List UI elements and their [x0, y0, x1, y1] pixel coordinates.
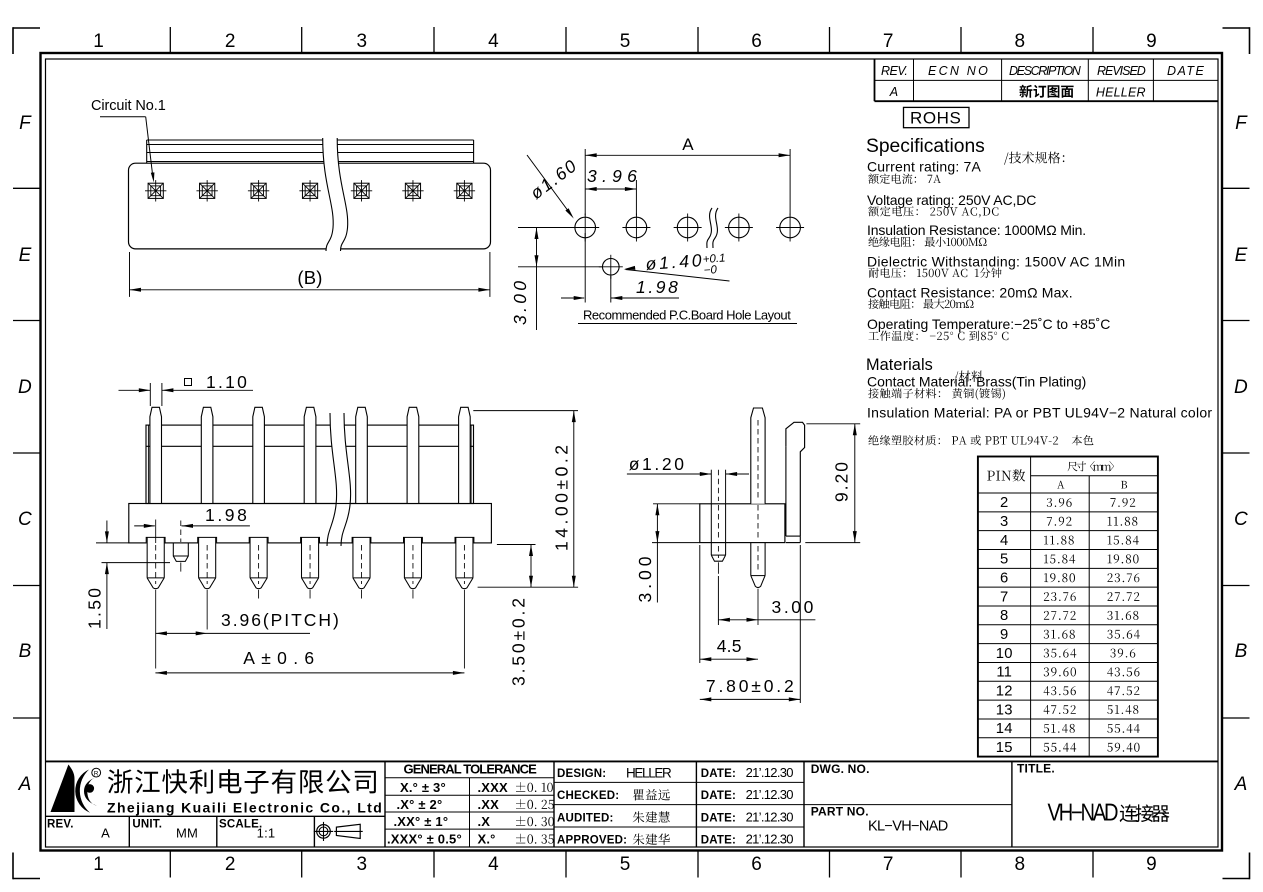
svg-text:HELLER: HELLER	[626, 766, 672, 781]
corner bracket top-right	[1223, 27, 1250, 54]
spec current rating	[867, 159, 981, 184]
svg-text:CHECKED:: CHECKED:	[557, 790, 619, 802]
right ruler ticks	[1223, 188, 1250, 718]
svg-text:R: R	[94, 771, 99, 778]
svg-text:6: 6	[1000, 571, 1008, 587]
svg-text:GENERAL TOLERANCE: GENERAL TOLERANCE	[404, 762, 538, 777]
svg-text:Voltage rating: 250V AC,DC: Voltage rating: 250V AC,DC	[867, 192, 1037, 208]
svg-text:10: 10	[996, 646, 1013, 662]
dimension 3.00 peg to pin side	[718, 576, 815, 625]
svg-text:REVISED: REVISED	[1097, 64, 1146, 78]
svg-text:8: 8	[1000, 608, 1008, 624]
svg-text:B: B	[1235, 641, 1248, 662]
svg-text:AUDITED:: AUDITED:	[557, 813, 614, 825]
svg-text:11: 11	[996, 665, 1012, 681]
bottom column numbers 1-9	[93, 854, 1157, 875]
svg-text:ECN NO: ECN NO	[928, 64, 988, 78]
top view wafer rails	[147, 140, 474, 163]
hole layout lower hole	[599, 255, 623, 279]
svg-text:3.96(PITCH): 3.96(PITCH)	[221, 610, 339, 630]
svg-text:1: 1	[93, 31, 104, 52]
svg-text:7: 7	[1000, 589, 1008, 605]
svg-text:21’.12.30: 21’.12.30	[746, 787, 794, 802]
svg-text:21’.12.30: 21’.12.30	[746, 765, 794, 780]
spec voltage rating	[867, 192, 1037, 218]
svg-text:Insulation Resistance: 1000M: Insulation Resistance: 1000MΩ Min.	[867, 222, 1086, 238]
bottom ruler ticks	[170, 851, 1093, 878]
svg-text:Dielectric Withstanding: 15: Dielectric Withstanding: 1500V AC 1Min	[867, 253, 1125, 269]
svg-text:(B): (B)	[297, 267, 322, 288]
svg-text:1: 1	[93, 854, 104, 875]
svg-text:REV.: REV.	[47, 819, 74, 831]
materials heading	[866, 356, 983, 383]
svg-text:2: 2	[225, 31, 236, 52]
dimension 3.50 pin protrusion	[497, 545, 536, 686]
dimension 3.96 pitch	[155, 610, 339, 635]
svg-text:E: E	[19, 245, 32, 266]
svg-text:9: 9	[1000, 627, 1008, 643]
svg-text:.X: .X	[478, 814, 491, 829]
dimension 3.96 hole pitch	[585, 166, 637, 216]
svg-text:UNIT.: UNIT.	[132, 819, 162, 831]
svg-text:21’.12.30: 21’.12.30	[746, 832, 794, 847]
front view hold-down peg	[173, 521, 188, 572]
svg-text:15: 15	[996, 740, 1013, 756]
right row letters F-A	[1234, 113, 1249, 795]
dimension 1.50 peg length	[88, 521, 170, 630]
dimension 9.20 blade height	[805, 424, 860, 543]
front view housing body	[146, 425, 474, 503]
svg-text:Materials: Materials	[866, 356, 933, 374]
dimension A plus-minus 0.6	[155, 648, 464, 675]
svg-text:12: 12	[996, 684, 1013, 700]
svg-text:Current rating: 7A: Current rating: 7A	[867, 159, 981, 175]
svg-text:C: C	[1234, 509, 1248, 530]
dimension 4.5 side	[700, 545, 758, 663]
corner bracket bottom-left	[13, 853, 40, 880]
company name chinese	[108, 769, 376, 794]
material insulation	[867, 404, 1212, 445]
svg-text:6: 6	[751, 854, 762, 875]
front view base band	[129, 504, 492, 543]
svg-text:7: 7	[883, 854, 894, 875]
svg-text:A±0.6: A±0.6	[243, 648, 314, 668]
top column numbers 1-9	[93, 31, 1157, 52]
svg-text:Circuit No.1: Circuit No.1	[91, 98, 166, 114]
svg-text:5: 5	[620, 31, 631, 52]
svg-text:ROHS: ROHS	[910, 109, 961, 128]
svg-text:9: 9	[1146, 31, 1157, 52]
label diameter 1.60 with leader	[527, 155, 578, 219]
svg-text:A: A	[101, 826, 110, 841]
svg-text:DATE:: DATE:	[701, 835, 736, 847]
svg-text:DWG. NO.: DWG. NO.	[811, 762, 870, 776]
svg-text:1.10: 1.10	[206, 372, 247, 392]
left row letters F-A	[18, 113, 33, 795]
svg-text:4: 4	[1000, 533, 1008, 549]
svg-text:APPROVED:: APPROVED:	[557, 835, 627, 847]
svg-text:8: 8	[1015, 31, 1026, 52]
hole layout break mark	[707, 208, 719, 248]
spec dielectric withstanding	[867, 253, 1125, 278]
svg-text:2: 2	[225, 854, 236, 875]
svg-text:C: C	[18, 509, 32, 530]
svg-text:7.80±0.2: 7.80±0.2	[706, 676, 794, 696]
svg-text:3.00: 3.00	[772, 597, 814, 617]
svg-text:Insulation Material: PA or: Insulation Material: PA or PBT UL94V−2 N…	[867, 404, 1212, 420]
svg-text:PART NO.: PART NO.	[811, 805, 869, 819]
svg-text:DATE: DATE	[1167, 64, 1204, 78]
svg-text:3.96: 3.96	[587, 166, 637, 186]
svg-text:TITLE.: TITLE.	[1017, 762, 1055, 776]
dimension A horizontal	[585, 135, 790, 216]
svg-text:6: 6	[751, 31, 762, 52]
svg-text:1.98: 1.98	[205, 505, 247, 525]
svg-text:DATE:: DATE:	[701, 768, 736, 780]
svg-text:B: B	[19, 641, 32, 662]
corner bracket top-left	[13, 27, 40, 54]
spec contact resistance	[867, 285, 1073, 309]
ROHS label	[904, 107, 970, 127]
dimension 14.00 overall height	[473, 411, 578, 588]
dimension 3.00 base height side	[639, 504, 700, 603]
svg-text:DESIGN:: DESIGN:	[557, 768, 606, 780]
side view peg below base	[711, 470, 725, 574]
general tolerance table	[385, 762, 554, 848]
svg-text:DATE:: DATE:	[701, 813, 736, 825]
side view locking blade wall	[786, 422, 805, 542]
svg-text:3: 3	[357, 854, 368, 875]
projection symbol	[314, 822, 363, 841]
svg-text:D: D	[18, 377, 32, 398]
svg-text:A: A	[889, 85, 899, 99]
dimension 1.98 hole offset	[561, 233, 679, 303]
svg-text:Zhejiang Kuaili Electronic: Zhejiang Kuaili Electronic Co., Ltd	[107, 800, 382, 816]
specifications heading	[866, 136, 1064, 165]
svg-text:A: A	[682, 135, 694, 154]
spec insulation resistance	[867, 222, 1086, 247]
side view vertical pin	[751, 408, 765, 504]
svg-text:.XXX: .XXX	[478, 780, 509, 795]
dimension 1.10 square pin	[119, 372, 254, 406]
front view top pins	[150, 407, 470, 503]
svg-text:1:1: 1:1	[257, 826, 276, 841]
company name english	[107, 800, 382, 816]
svg-text:.XX° ± 1°: .XX° ± 1°	[394, 814, 449, 829]
svg-text:13: 13	[996, 702, 1013, 718]
svg-text:A: A	[1234, 774, 1248, 795]
svg-text:DESCRIPTION: DESCRIPTION	[1009, 64, 1082, 78]
dimension 3.00 hole row offset	[514, 228, 603, 331]
side view pin below base	[751, 505, 765, 625]
svg-text:ø1.20: ø1.20	[629, 454, 685, 474]
svg-text:3: 3	[357, 31, 368, 52]
svg-text:4: 4	[488, 31, 499, 52]
svg-text:A: A	[18, 774, 32, 795]
svg-text:Specifications: Specifications	[866, 136, 985, 157]
svg-text:.X° ± 2°: .X° ± 2°	[397, 797, 443, 812]
title block left bottom row	[46, 816, 386, 847]
svg-text:X.°: X.°	[478, 832, 496, 847]
drawing title	[1017, 762, 1170, 823]
svg-text:D: D	[1234, 377, 1248, 398]
company logo	[51, 765, 101, 813]
svg-text:KL−VH−NAD: KL−VH−NAD	[868, 819, 948, 835]
svg-text:21’.12.30: 21’.12.30	[746, 810, 794, 825]
svg-text:DATE:: DATE:	[701, 790, 736, 802]
svg-text:2: 2	[1000, 495, 1008, 511]
svg-text:F: F	[19, 113, 32, 134]
svg-text:14: 14	[996, 721, 1013, 737]
top ruler ticks	[170, 27, 1093, 53]
front view bottom pins	[146, 520, 474, 669]
approval rows	[554, 765, 804, 847]
svg-text:4: 4	[488, 854, 499, 875]
material contact	[867, 374, 1087, 400]
hole layout top row holes	[571, 214, 804, 242]
front view pin1 centerline in band	[155, 520, 157, 544]
svg-text:REV.: REV.	[881, 64, 908, 78]
svg-text:8: 8	[1015, 854, 1026, 875]
svg-text:.XXX° ± 0.5°: .XXX° ± 0.5°	[387, 832, 462, 847]
dimension (B)	[130, 252, 490, 297]
side view base body	[700, 504, 785, 543]
svg-text:1.98: 1.98	[636, 277, 678, 297]
revision table	[875, 59, 1219, 101]
svg-text:Contact Resistance: 20mΩ M: Contact Resistance: 20mΩ Max.	[867, 285, 1073, 301]
drawing number and part number	[804, 762, 1012, 835]
svg-text:3: 3	[1000, 514, 1008, 530]
svg-text:Operating Temperature:−25˚C: Operating Temperature:−25˚C to +85˚C	[867, 316, 1111, 332]
svg-text:5: 5	[1000, 552, 1008, 568]
caption recommended pc board hole layout	[578, 308, 797, 324]
svg-text:MM: MM	[176, 826, 198, 841]
circuit No.1 label and leader	[91, 98, 166, 183]
top view connector body	[129, 163, 491, 249]
dimension 1.98 peg offset front	[134, 505, 250, 528]
corner bracket bottom-right	[1223, 853, 1250, 880]
svg-text:Recommended P.C.Board Hole Lay: Recommended P.C.Board Hole Layout	[583, 308, 791, 323]
svg-text:9: 9	[1146, 854, 1157, 875]
svg-text:X.° ± 3°: X.° ± 3°	[400, 780, 446, 795]
top view pin contacts	[145, 180, 475, 201]
svg-text:7: 7	[883, 31, 894, 52]
svg-text:HELLER: HELLER	[1096, 86, 1146, 100]
spec operating temperature	[867, 316, 1111, 341]
title block outline	[46, 761, 1219, 847]
svg-text:E: E	[1235, 245, 1248, 266]
svg-text:F: F	[1235, 113, 1248, 134]
front view break line	[327, 413, 351, 546]
dimension diameter 1.20 peg	[627, 454, 749, 543]
svg-text:5: 5	[620, 854, 631, 875]
pin count dimension table	[978, 457, 1158, 757]
top view break line	[323, 138, 348, 251]
svg-text:4.5: 4.5	[717, 636, 742, 656]
dimension 7.80 overall side	[700, 545, 801, 703]
svg-text:Contact Material: Brass(Tin: Contact Material: Brass(Tin Plating)	[867, 374, 1087, 390]
svg-text:.XX: .XX	[478, 797, 500, 812]
left ruler ticks	[13, 188, 40, 718]
label diameter 1.40 with leader and tolerance	[624, 254, 730, 281]
